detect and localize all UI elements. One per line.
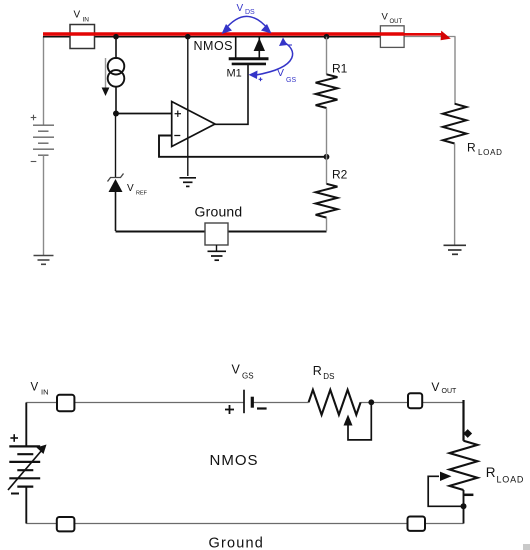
svg-text:V: V bbox=[431, 380, 439, 394]
svg-text:IN: IN bbox=[83, 17, 90, 24]
svg-text:R: R bbox=[486, 465, 496, 480]
svg-text:OUT: OUT bbox=[390, 19, 403, 25]
svg-text:Ground: Ground bbox=[195, 204, 243, 220]
svg-text:V: V bbox=[31, 382, 39, 394]
svg-text:NMOS: NMOS bbox=[210, 452, 259, 469]
svg-text:R1: R1 bbox=[332, 62, 348, 76]
svg-text:LOAD: LOAD bbox=[497, 475, 525, 485]
svg-text:IN: IN bbox=[41, 388, 49, 397]
svg-text:V: V bbox=[277, 67, 284, 79]
svg-text:REF: REF bbox=[136, 191, 148, 197]
svg-text:V: V bbox=[232, 363, 241, 377]
svg-text:V: V bbox=[382, 12, 389, 23]
svg-text:NMOS: NMOS bbox=[194, 39, 234, 53]
svg-text:M1: M1 bbox=[227, 68, 242, 80]
svg-text:LOAD: LOAD bbox=[478, 148, 503, 157]
svg-text:OUT: OUT bbox=[442, 388, 458, 395]
svg-text:V: V bbox=[237, 3, 244, 14]
svg-text:Ground: Ground bbox=[209, 535, 265, 550]
svg-text:DS: DS bbox=[323, 372, 334, 381]
svg-text:R: R bbox=[313, 364, 322, 378]
svg-text:R2: R2 bbox=[332, 168, 348, 182]
svg-text:V: V bbox=[127, 183, 134, 194]
svg-text:GS: GS bbox=[242, 371, 254, 380]
svg-text:GS: GS bbox=[286, 77, 296, 84]
svg-text:V: V bbox=[74, 10, 81, 21]
svg-text:R: R bbox=[467, 141, 476, 155]
svg-text:DS: DS bbox=[245, 9, 255, 16]
